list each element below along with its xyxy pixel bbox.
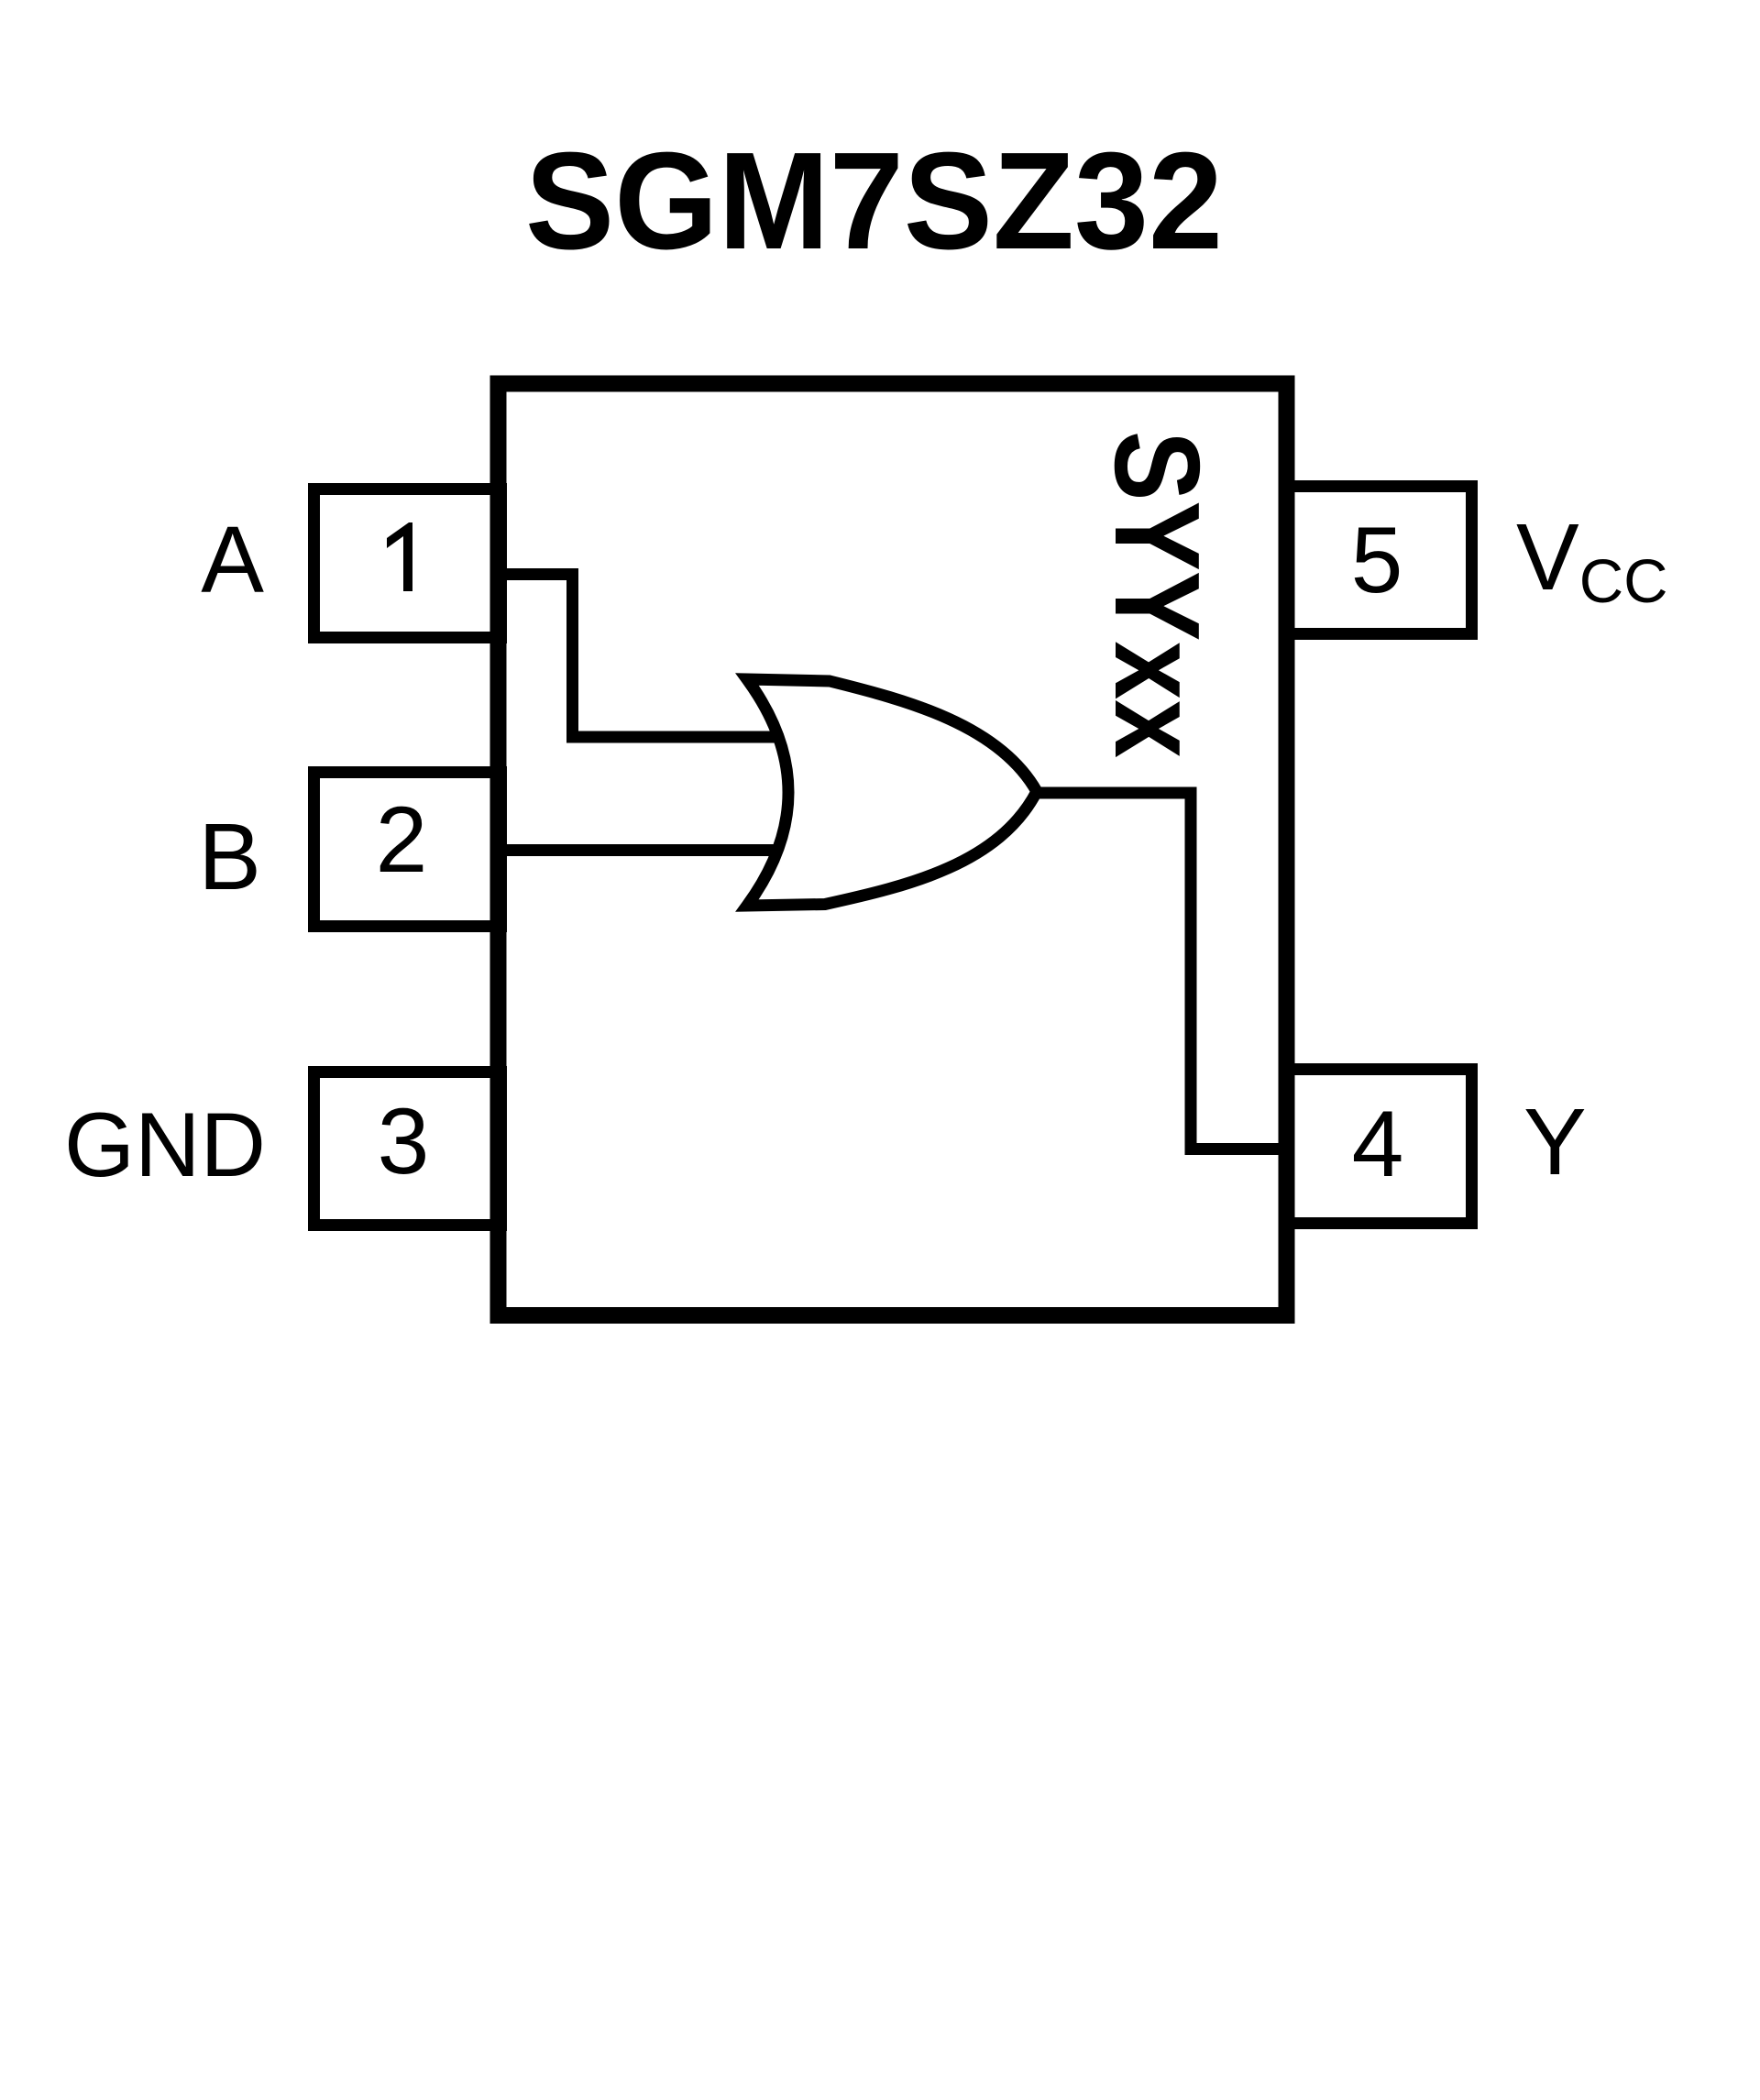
pin 2 box [314, 773, 501, 927]
svg-text:GND: GND [64, 1094, 266, 1195]
IC body outline [499, 384, 1287, 1316]
svg-text:Y: Y [1523, 1089, 1587, 1194]
pin 5 box [1285, 487, 1472, 634]
svg-text:SGM7SZ32: SGM7SZ32 [525, 123, 1223, 278]
svg-text:VCC: VCC [1516, 504, 1667, 616]
pin 4 box [1285, 1070, 1472, 1224]
OR gate U1 [747, 679, 1037, 906]
svg-text:5: 5 [1351, 508, 1403, 612]
wire OR gate output to pin4 [1031, 793, 1283, 1149]
svg-text:3: 3 [378, 1089, 430, 1193]
pin 1 box [314, 489, 501, 638]
pin 1 number [387, 522, 412, 591]
pin 3 box [314, 1072, 501, 1226]
wire pin1 to OR gate input A [500, 575, 784, 738]
svg-text:A: A [201, 507, 264, 612]
svg-text:B: B [198, 804, 261, 909]
wire pin2 to OR gate input B [500, 844, 784, 856]
svg-text:2: 2 [376, 787, 428, 892]
svg-text:4: 4 [1352, 1092, 1404, 1196]
svg-text:SYYxx: SYYxx [1090, 431, 1225, 758]
